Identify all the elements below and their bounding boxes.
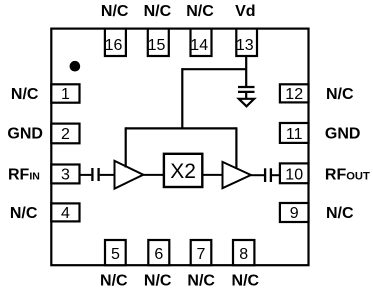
svg-text:5: 5	[111, 246, 120, 263]
pin 10	[280, 163, 309, 183]
svg-text:14: 14	[190, 37, 208, 54]
wire X2 to amp A2	[202, 174, 222, 176]
svg-text:16: 16	[105, 37, 123, 54]
pin 5	[105, 240, 126, 265]
pin 3	[51, 165, 79, 184]
pin 14	[190, 29, 211, 56]
svg-text:N/C: N/C	[11, 86, 39, 103]
wire bias drop to amp A2	[235, 127, 237, 169]
wire output cap to pin10	[272, 174, 280, 176]
multiplier U2 X2 block	[164, 154, 202, 187]
svg-text:13: 13	[236, 37, 254, 54]
wire pin3 to input cap	[80, 174, 92, 176]
svg-text:15: 15	[148, 37, 166, 54]
wire bypass cap to ground	[245, 93, 247, 100]
capacitor C2 output DC block	[265, 168, 271, 182]
wire Vd branch vertical	[181, 68, 183, 128]
capacitor C1 input DC block	[92, 168, 98, 181]
svg-text:X2: X2	[170, 160, 196, 183]
pin 16	[105, 29, 126, 56]
wire amp A1 to X2	[143, 174, 164, 176]
svg-text:N/C: N/C	[101, 3, 129, 20]
wire Vd branch horizontal	[182, 68, 246, 70]
wire bias drop to amp A1	[125, 127, 127, 167]
pin 12	[280, 84, 309, 103]
svg-text:11: 11	[286, 126, 303, 143]
wire input cap to amp A1	[100, 174, 115, 176]
pin 15	[148, 29, 169, 56]
pin 2	[51, 124, 79, 144]
svg-text:N/C: N/C	[232, 273, 260, 290]
pin 6	[148, 240, 169, 265]
chip body U1	[51, 29, 308, 266]
svg-text:2: 2	[61, 126, 70, 143]
svg-text:10: 10	[285, 167, 303, 184]
svg-text:6: 6	[154, 246, 163, 263]
pin 4	[51, 203, 79, 222]
svg-text:7: 7	[197, 246, 206, 263]
pin 11	[280, 123, 309, 143]
svg-text:N/C: N/C	[326, 86, 354, 103]
svg-text:N/C: N/C	[10, 205, 38, 222]
svg-text:N/C: N/C	[144, 3, 172, 20]
svg-text:3: 3	[61, 167, 70, 184]
svg-text:12: 12	[285, 86, 303, 103]
pin 1	[51, 84, 79, 103]
svg-text:9: 9	[290, 205, 299, 222]
svg-text:Vd: Vd	[235, 3, 255, 20]
pin 9	[280, 203, 309, 222]
svg-text:GND: GND	[325, 126, 361, 143]
svg-text:N/C: N/C	[186, 3, 214, 20]
op-amp A2 output amplifier	[223, 162, 251, 188]
pin-1 index dot	[70, 61, 81, 72]
svg-text:N/C: N/C	[326, 205, 354, 222]
op-amp A1 input amplifier	[115, 161, 144, 189]
svg-text:N/C: N/C	[100, 273, 128, 290]
svg-text:GND: GND	[7, 126, 43, 143]
pin 13	[236, 29, 257, 56]
capacitor C3 Vd bypass	[238, 87, 255, 92]
svg-text:RFIN: RFIN	[8, 166, 40, 183]
svg-text:N/C: N/C	[144, 273, 172, 290]
svg-text:8: 8	[239, 246, 248, 263]
wire Vd pin13 down to bypass cap	[245, 56, 247, 86]
pin 7	[191, 240, 212, 265]
wire amp A2 to output cap	[251, 174, 264, 176]
wire bias rail horizontal	[126, 127, 237, 129]
svg-text:RFOUT: RFOUT	[325, 166, 370, 183]
svg-text:N/C: N/C	[187, 273, 215, 290]
pin 8	[233, 240, 254, 265]
ground	[239, 99, 254, 107]
svg-text:4: 4	[61, 205, 70, 222]
svg-text:1: 1	[61, 86, 70, 103]
